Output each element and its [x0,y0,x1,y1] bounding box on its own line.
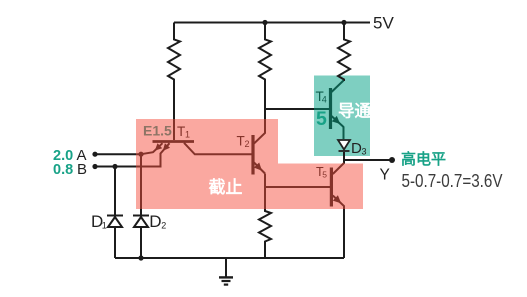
svg-text:导通: 导通 [338,102,372,121]
svg-text:5V: 5V [373,14,394,33]
svg-text:2: 2 [161,220,166,230]
svg-text:5: 5 [322,170,327,180]
svg-text:5-0.7-0.7=3.6V: 5-0.7-0.7=3.6V [402,171,503,191]
svg-text:T: T [237,134,245,149]
svg-text:1: 1 [185,130,190,140]
svg-text:截止: 截止 [209,177,243,197]
svg-text:高电平: 高电平 [401,150,446,168]
svg-text:4: 4 [322,95,327,105]
svg-text:2: 2 [245,139,250,149]
svg-text:1: 1 [102,220,107,230]
svg-text:E1.5: E1.5 [143,122,172,138]
svg-text:0.8: 0.8 [53,162,73,178]
svg-text:D: D [149,212,161,231]
svg-text:B: B [77,161,87,178]
svg-text:5: 5 [316,108,327,130]
svg-text:Y: Y [380,166,390,183]
svg-text:3: 3 [362,146,367,156]
svg-text:D: D [351,140,362,157]
svg-text:T: T [177,124,185,139]
